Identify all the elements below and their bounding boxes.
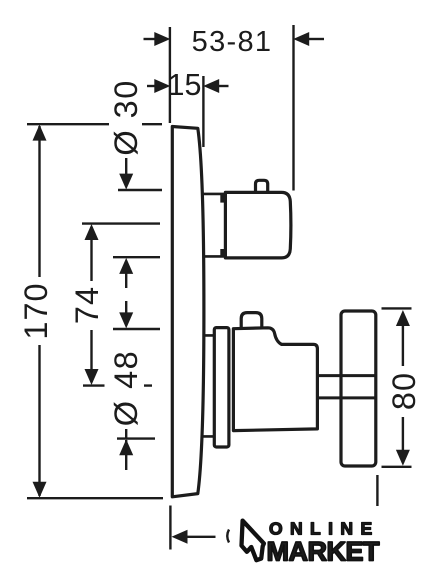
dim 15 tail left [147, 85, 156, 87]
svg-text:MARKET: MARKET [267, 537, 380, 567]
ext line y257 (Ø30 bottom) [113, 256, 160, 258]
svg-text:15: 15 [168, 68, 202, 102]
top handle tab [256, 180, 268, 191]
arrow 170 top [33, 125, 47, 141]
cross handle bar [341, 311, 376, 466]
dim Ø48 tick above bottom line [125, 429, 127, 438]
arrow 15 right [203, 79, 219, 93]
svg-text:74: 74 [69, 286, 105, 324]
dim Ø30 line upper [125, 158, 127, 186]
arrow 15 left [154, 79, 170, 93]
logo cursor [242, 521, 264, 561]
arrow 170 bottom [33, 482, 47, 498]
arrow 80 top [396, 310, 410, 326]
top handle body [225, 192, 291, 258]
extension line left of 53-81 and 15 [169, 27, 171, 123]
lower adapter lines [204, 335, 214, 436]
arrow 80 bottom [396, 450, 410, 466]
dim fragment near logo [227, 530, 229, 543]
top handle clip upper [220, 194, 226, 202]
ext line plate bottom (170) [27, 497, 163, 499]
top handle clip lower [220, 249, 226, 257]
dim 15 tail right [218, 85, 229, 87]
ext line plate top (170) [27, 123, 162, 125]
arrow Ø30 up-outside [119, 258, 133, 274]
stem lines [318, 376, 375, 398]
arrow 74 bottom [85, 369, 99, 385]
lower valve body [233, 328, 317, 431]
arrow 74 top [85, 224, 99, 240]
dim 80 line [402, 313, 404, 463]
arrow 53-81 right [293, 32, 309, 46]
ext line y223 (74 top) [82, 222, 160, 224]
ext line y467 (80 bottom) [382, 466, 412, 468]
arrow 53-81 left [154, 32, 170, 46]
extension line right of 15 [202, 76, 204, 147]
extension line right of 53-81 [292, 25, 294, 191]
bottom ext line below plate [169, 506, 171, 550]
lower flange [214, 328, 229, 447]
arrow Ø48 up-outside [119, 439, 133, 455]
ext line y190 (Ø30) [118, 189, 162, 191]
lower knob [241, 313, 262, 328]
ext line y308 (80 top) [382, 307, 412, 309]
bottom dim tail [186, 536, 216, 538]
svg-text:80: 80 [386, 372, 422, 410]
dim 74 line [90, 227, 92, 382]
svg-text:53-81: 53-81 [192, 26, 273, 58]
ext line below cross bar [376, 475, 378, 506]
svg-text:Ø 48: Ø 48 [108, 350, 144, 426]
dim 53-81 tail right [308, 38, 324, 40]
top handle adapter lines [203, 194, 225, 257]
ext line y438 (Ø48 bottom) [117, 437, 155, 439]
dim 170 line [38, 126, 40, 496]
arrow Ø30 down [119, 174, 133, 190]
ext line y329 (Ø48 top) [113, 328, 160, 330]
arrow Ø48 down-outside [119, 312, 133, 328]
dim Ø48 lower tail [125, 440, 127, 470]
svg-text:170: 170 [18, 282, 54, 339]
arrow bottom dim left [172, 530, 188, 544]
wall plate [172, 127, 204, 497]
dim 53-81 tail left [144, 38, 157, 40]
svg-text:ONLINE: ONLINE [269, 518, 380, 538]
svg-text:Ø 30: Ø 30 [108, 79, 144, 155]
ext line y385 (74 bottom) [83, 384, 152, 386]
dim line between Ø30 bottom and Ø48 top [125, 261, 127, 325]
